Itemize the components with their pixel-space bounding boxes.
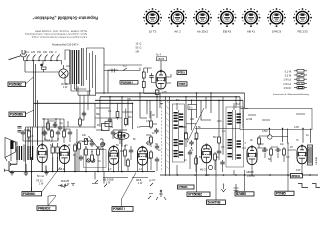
tuning gang dashed shaft [162,96,170,176]
svg-text:4µF: 4µF [24,129,29,132]
svg-text:4 W Dr: 4 W Dr [284,87,292,90]
grid components cluster above V1 [102,110,128,141]
ground symbol G3 [44,171,48,176]
resistor R8b [150,150,153,160]
label box PY7/5098Z [187,192,210,197]
wire V4 grid network [144,68,171,97]
tube socket V4 base diagram [218,8,237,33]
svg-text:EB A3: EB A3 [223,30,232,34]
tube socket V3 base diagram [193,8,212,33]
svg-text:Dr: Dr [97,124,100,127]
standby switch wire [104,68,140,73]
wire interstage [125,145,131,172]
ground symbol G1 [10,171,14,176]
label box P7B1 [177,70,187,74]
svg-text:0,05: 0,05 [162,91,167,94]
junction dot [124,145,125,146]
svg-text:2B/D5: 2B/D5 [158,58,165,61]
svg-text:150: 150 [37,51,42,54]
svg-text:Ab 2Dr2: Ab 2Dr2 [197,30,208,34]
svg-text:8P0C9: 8P0C9 [292,174,301,178]
svg-text:PS/5098Z: PS/5098Z [9,83,22,87]
svg-text:PRB3/D2: PRB3/D2 [38,206,51,210]
svg-text:9 W: 9 W [296,169,301,172]
svg-text:AB 41: AB 41 [247,30,256,34]
svg-text:8µF: 8µF [46,139,51,142]
svg-text:125: 125 [31,51,36,54]
svg-text:PS/5098 I: PS/5098 I [121,80,133,84]
switch compartment box [84,150,107,168]
capacitor C1 [90,141,94,147]
junction dot [57,138,58,139]
AVC components between V3 and B2 [214,135,225,172]
capacitor C3 [108,117,112,123]
resistor R7 [150,119,153,129]
heater wires from Tr1 secondary [71,48,104,96]
IF stage components between V2 and B1 [150,119,160,171]
junction dot [91,151,92,152]
AF coupling cluster left of V1 [78,136,106,163]
oscillator section oval [114,132,129,139]
resistor R6 [119,130,122,140]
svg-text:PS/5098S: PS/5098S [10,113,24,117]
selector junction dots [26,60,57,61]
wire R8b [151,160,157,171]
label box B7/4B5 [235,192,254,196]
filter components row above Tr2 [21,118,77,171]
svg-text:1M: 1M [260,143,263,146]
B+ bus wires [34,93,245,103]
svg-text:Lautspr.: Lautspr. [315,156,318,165]
screen bypass capacitor C20 [82,111,86,117]
fuse Si [41,64,47,72]
svg-text:0,5M: 0,5M [262,130,267,133]
resistor R19 [127,158,130,168]
label box P7B/B7I [112,173,136,212]
svg-text:Netzanschluß 110-240 V~: Netzanschluß 110-240 V~ [52,44,80,47]
rectifier label 06C9 [61,83,68,89]
junction dots bottom bus [25,171,311,176]
detector components between B1 and V3 [185,131,198,156]
cathode line under tubes [103,177,148,179]
wire drops to bottom boxes [184,97,288,200]
cathode resistor R14 [155,89,159,94]
wire avc [215,162,223,172]
svg-text:1 W: 1 W [205,174,210,177]
svg-text:10n: 10n [280,143,285,146]
junction dot [85,146,86,147]
svg-text:Reparatur-Schaltbild „Perfekti: Reparatur-Schaltbild „Perfektion“ [32,16,98,21]
svg-text:Ω: Ω [140,47,142,50]
label box P7B1B [178,185,195,189]
coil box L2 [105,122,112,127]
svg-text:Ω: Ω [140,43,142,46]
svg-text:2M: 2M [136,51,139,54]
svg-text:Kurzzeichen d. Widerstands-Bel: Kurzzeichen d. Widerstands-Belastung [273,93,310,96]
diagonal pointer line [187,108,204,143]
antenna terminal A [156,190,166,200]
label box 8P0C9 [291,174,303,179]
voltage selector S1 [24,55,62,61]
svg-text:110: 110 [25,51,29,54]
resistor R16 [283,147,286,157]
resistor R23 [63,129,66,139]
label box PRB3/D2 [37,196,56,210]
svg-text:50µ: 50µ [49,129,54,132]
AF components between V7 and V8 [258,135,286,157]
svg-text:4B C9: 4B C9 [200,169,207,172]
feedback loop wire [240,108,312,129]
resistor R17 [258,136,261,146]
junction dot [102,148,103,149]
junction dot [195,155,196,156]
tube V8 output [297,145,307,164]
svg-text:100: 100 [190,118,195,121]
resistor R4 [116,110,119,120]
junction dot [97,146,98,147]
resistor R11 [218,135,221,145]
capacitor C32 [21,130,25,136]
tube socket V6 base diagram [267,8,286,33]
speaker field coil L9 [308,145,319,165]
legend: resistor type key [273,70,310,97]
junction dot [63,126,64,127]
switch contact S2 [148,180,156,200]
grid cap circle V2 [147,141,151,145]
svg-text:9Y7/5098Z: 9Y7/5098Z [188,193,202,197]
label box PS/5098Z [8,77,34,87]
capacitor C9 [217,149,221,155]
resistor R3b [91,153,94,163]
resistor R15 [270,147,273,157]
svg-text:B7/4B5: B7/4B5 [236,192,246,196]
tap value stack [136,43,142,54]
subtitle paragraph (upside-down) [24,29,87,38]
V4 screen feed wires [80,91,88,127]
tube V6 envelope [42,145,70,192]
grid cap circle V3 [208,165,212,169]
label box PS/5098 I [120,80,138,84]
pickup terminal TA2 [312,184,320,188]
tube socket V1 base diagram [143,8,162,33]
resistor R3 [97,147,100,157]
under-tube tiny labels [37,168,301,178]
capacitor C34 [56,130,60,136]
svg-text:AVC: AVC [217,120,222,123]
tube V1 AK2 mixer [103,145,119,184]
resistor R24 [47,121,50,131]
voltage labels [25,51,57,54]
svg-text:1 W: 1 W [39,183,44,186]
label box 5mA7VB [207,200,226,205]
svg-text:FS/5098 I: FS/5098 I [23,192,35,196]
svg-text:an B2: an B2 [246,118,253,121]
power transformer Tr1 [65,48,96,86]
capacitor C5 [154,128,158,134]
electrolytic capacitor C31 [56,143,59,157]
svg-text:P7B/B7 I: P7B/B7 I [113,207,125,211]
wire det [190,156,196,172]
electrolytic capacitor C30 [51,143,54,157]
resistor R9 [185,131,188,141]
svg-text:1M: 1M [120,150,123,153]
junction dot [63,128,64,129]
ground symbol G2 [24,171,28,176]
svg-text:RE 233: RE 233 [297,30,307,34]
capacitor C2 [101,141,105,147]
capacitor C18 [129,148,133,154]
resistor R10 [195,131,198,141]
svg-text:AB 2: AB 2 [59,168,65,171]
label box P57/B5 [275,191,294,195]
tube V7 AF7 [246,146,257,174]
wire network mid band [79,97,309,175]
coupling capacitor C21 [149,74,153,80]
resistor R18 [124,148,127,158]
junction dot [191,147,192,148]
label box FS/5098I [22,187,42,196]
resistor R8 [150,135,153,145]
speaker lead wires [11,127,95,172]
junction circle [268,135,272,139]
svg-text:P7B1: P7B1 [178,71,185,75]
volume potentiometer arrow [221,184,225,192]
svg-text:Baujahr 1938/39 · Geräte-Nr. 1: Baujahr 1938/39 · Geräte-Nr. 1234 · Scha… [34,29,87,32]
scattered value labels [24,110,299,149]
svg-text:P7B1B: P7B1B [179,185,189,189]
capacitor C2b [79,155,83,161]
oscillator coil assembly [113,129,127,131]
svg-text:0,05: 0,05 [294,126,299,129]
capacitor C36 [53,122,57,128]
label box P4D5 [178,82,188,86]
svg-text:1PAC9: 1PAC9 [272,30,282,34]
svg-text:AL 4: AL 4 [156,54,161,57]
junction dot [43,118,44,119]
junction dot [55,118,56,119]
svg-text:P57/B5: P57/B5 [276,192,286,196]
capacitor C37 [42,130,46,136]
svg-text:2M: 2M [128,116,131,119]
scattered value labels 2 [30,91,309,163]
grid resistor R13 [142,80,145,90]
tube V2 AF3 IF amp [136,146,148,185]
svg-text:dynam. Lautsprecher, Wellenber: dynam. Lautsprecher, Wellenbereiche K-M-… [24,32,87,35]
tube socket V7 base diagram [293,8,312,33]
tube socket V2 base diagram [168,8,187,33]
resistor R10b [195,156,198,166]
output transformer Tr2 [17,145,33,162]
mid horizontal link wires [95,108,305,135]
grid resistor R12 [142,68,145,80]
tube V5 AZ1 rectifier envelope [36,144,47,186]
wire filter row [23,119,77,172]
capacitor C11 [275,148,281,152]
svg-text:50 mA: 50 mA [37,175,44,178]
capacitor C33 [43,130,47,136]
IF transformer B2 [226,107,244,167]
small value box B1 [188,105,197,110]
capacitor C8 [188,150,192,156]
loudspeaker LS [5,138,18,172]
capacitor C6b [155,157,159,163]
tone control symbol [234,184,239,196]
bus vertical feeders [104,65,311,155]
pickup terminal TA1 [298,184,308,188]
svg-text:1M: 1M [183,126,186,129]
svg-text:0,55 W: 0,55 W [247,175,255,178]
rectifier tube GL1 [59,65,68,78]
svg-text:1 W Ld: 1 W Ld [283,79,291,82]
smoothing resistor R20 [74,143,77,153]
tube V3 ABC1 detector [202,144,212,163]
svg-text:5M: 5M [213,136,216,139]
detector load components [184,155,197,172]
mains switch on pot [58,184,75,188]
svg-text:220: 220 [43,51,48,54]
svg-text:GB00B: GB00B [246,171,254,174]
capacitor C38 [58,125,62,131]
title block (printed upside-down on scan) [32,16,98,21]
tube socket V5 base diagram [242,8,261,33]
mains plug P1 [9,50,27,61]
resistor R5 [124,117,127,127]
capacitor C7 [189,140,193,146]
svg-text:0,1 W: 0,1 W [285,70,292,73]
svg-text:4 W: 4 W [63,86,68,89]
svg-text:5mA/7VB: 5mA/7VB [208,201,222,205]
resistor R22 [51,129,54,139]
label box PS/5098S [9,110,34,117]
capacitor C4 [111,130,115,136]
svg-text:10 T3: 10 T3 [149,30,157,34]
coupling caps on speaker leads [18,127,22,133]
svg-text:0,5 W: 0,5 W [285,75,292,78]
resistor R11b [214,152,217,162]
resistor R1 [78,141,81,151]
mains bus wires down left [34,61,38,127]
capacitor C6 [155,144,159,150]
svg-text:2 W Ld: 2 W Ld [283,83,291,86]
junction dot [44,138,45,139]
resistor R21 [28,129,31,139]
junction dots on bus [103,92,303,129]
dropping resistor R25 [79,117,82,127]
resistor R2 [85,147,88,157]
band switch contacts bottom left [92,172,107,188]
interstage components between V1 and V2 [124,145,134,172]
svg-text:P4D5: P4D5 [179,82,186,86]
svg-text:240: 240 [49,51,54,54]
svg-text:AK 2: AK 2 [174,30,181,34]
capacitor C35 [68,130,72,136]
svg-text:1 W: 1 W [138,182,143,185]
output tube V4 AL4 [156,54,167,90]
wire mains to rectifier [25,61,62,73]
bottom ground bus [9,127,318,193]
potentiometer P1 [82,136,99,150]
choke L1 [102,124,110,131]
IF transformer B1 [172,104,184,162]
wire to PRB3 box [48,196,56,207]
grid cap circle V1 [101,143,105,147]
capacitor C10 [262,148,268,152]
svg-text:6-Kreis-Superhet mit 4 Röhren: 6-Kreis-Superhet mit 4 Röhren für Wechse… [31,36,87,39]
capacitor C9b [220,160,224,166]
